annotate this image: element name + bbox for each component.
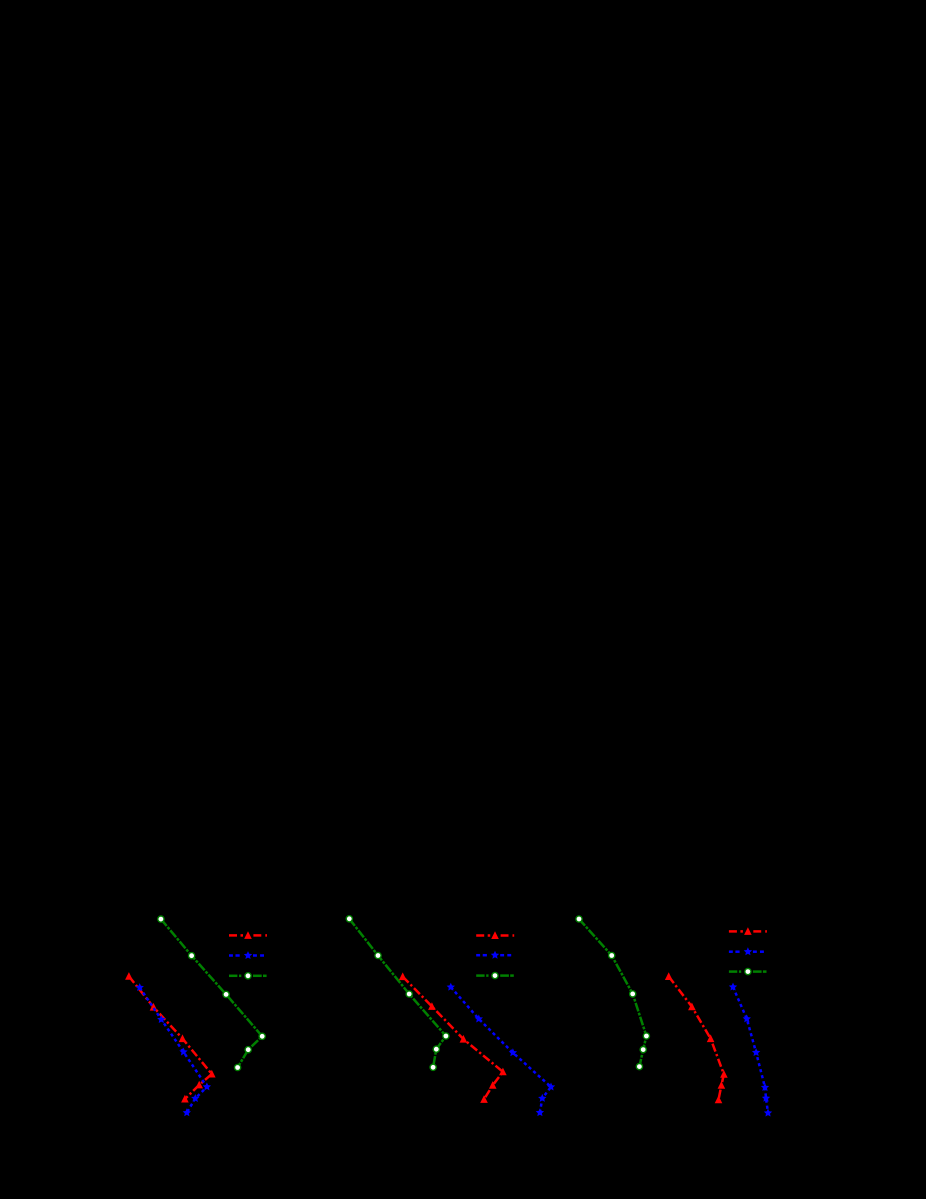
subplot 1 blue dashed curve with star markers [136,983,212,1116]
subplot 3 green dash-dot curve with white circle markers [576,916,650,1070]
legend subplot 2 green entry (dash-dot line with circle marker) [476,973,514,979]
subplot 2 red dash-dot curve with triangle markers [399,972,507,1103]
subplot 2 blue dashed curve with star markers [447,983,556,1116]
subplot 3 blue dashed curve with star markers [729,983,772,1117]
legend subplot 1 blue entry (dashed line with star marker) [229,951,264,959]
subplot 3 red dash-dot curve with triangle markers [665,972,728,1103]
subplot 1 green dash-dot curve with white circle markers [158,916,266,1071]
legend subplot 3 blue entry (dashed line with star marker) [729,947,764,955]
subplot 2 green dash-dot curve with white circle markers [346,916,449,1071]
legend subplot 2 red entry (dash-dot line with triangle marker) [476,931,514,939]
legend subplot 2 blue entry (dashed line with star marker) [476,951,511,959]
subplot 1 red dash-dot curve with triangle markers [125,972,216,1102]
legend subplot 1 red entry (dash-dot line with triangle marker) [229,931,267,939]
legend subplot 3 red entry (dash-dot line with triangle marker) [729,927,767,935]
legend subplot 3 green entry (dash-dot line with circle marker) [729,969,767,975]
legend subplot 1 green entry (dash-dot line with circle marker) [229,973,267,979]
